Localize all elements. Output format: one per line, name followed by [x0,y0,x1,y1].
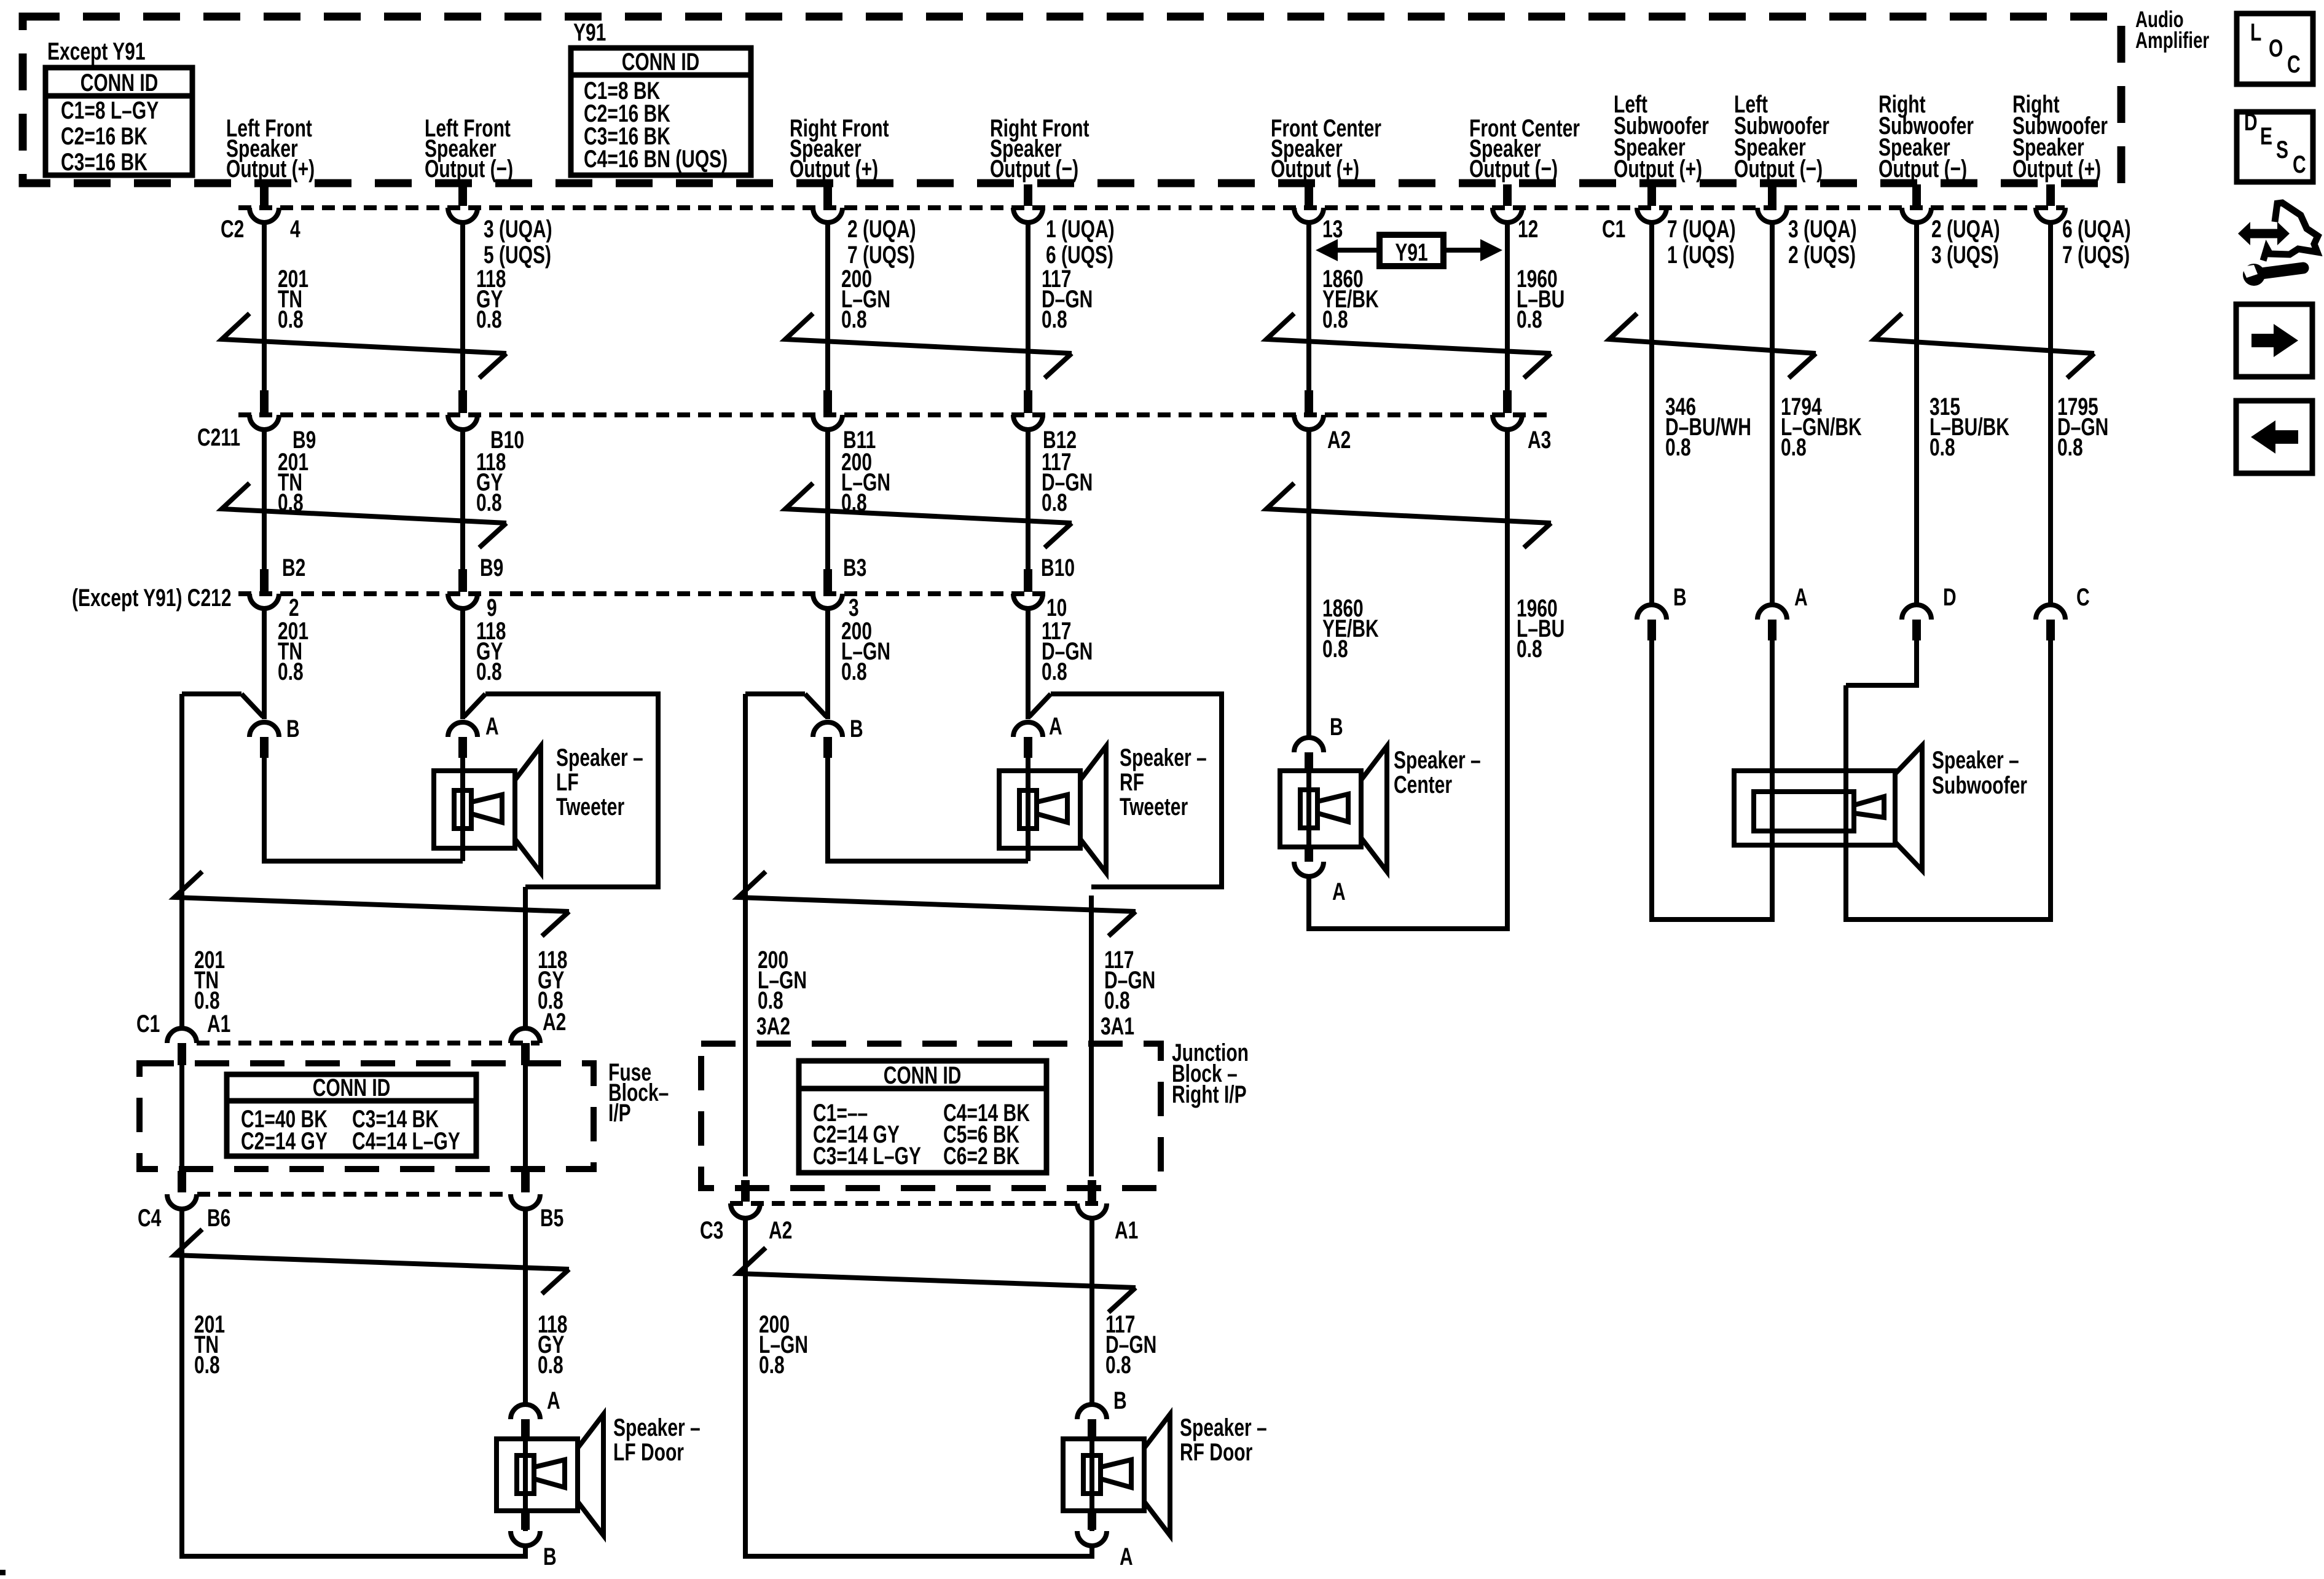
svg-text:C3=14 L–GY: C3=14 L–GY [813,1143,921,1170]
svg-text:C: C [2287,51,2301,78]
svg-text:Speaker –: Speaker – [1394,747,1481,774]
svg-text:B5: B5 [540,1205,563,1232]
svg-text:Amplifier: Amplifier [2135,27,2209,53]
svg-text:0.8: 0.8 [759,1352,785,1379]
svg-text:0.8: 0.8 [278,306,304,333]
svg-text:CONN ID: CONN ID [313,1074,391,1101]
svg-text:2 (UQA): 2 (UQA) [847,216,916,243]
svg-text:B: B [850,715,863,742]
svg-text:L: L [2250,19,2261,46]
svg-text:C4=14 L–GY: C4=14 L–GY [352,1128,460,1155]
svg-text:A2: A2 [769,1217,792,1244]
svg-text:C6=2 BK: C6=2 BK [943,1143,1020,1170]
svg-text:0.8: 0.8 [2057,434,2083,461]
svg-text:Output (+): Output (+) [790,156,878,183]
svg-text:B: B [1673,584,1687,611]
svg-text:Output (+): Output (+) [1614,156,1702,183]
svg-text:0.8: 0.8 [1042,306,1067,333]
svg-text:Output (+): Output (+) [226,156,315,183]
svg-text:B: B [1330,714,1343,741]
svg-text:4: 4 [290,216,300,243]
svg-text:B3: B3 [843,554,866,581]
svg-text:Tweeter: Tweeter [556,793,624,821]
svg-text:5 (UQS): 5 (UQS) [484,242,551,269]
svg-text:A: A [1049,713,1062,740]
svg-text:0.8: 0.8 [841,306,867,333]
svg-text:Speaker –: Speaker – [1932,747,2019,774]
svg-text:0.8: 0.8 [194,1352,220,1379]
svg-text:Output (−): Output (−) [1878,156,1967,183]
svg-text:B2: B2 [282,554,305,581]
svg-text:Output (−): Output (−) [1734,156,1823,183]
svg-text:CONN ID: CONN ID [622,49,700,76]
svg-text:LF: LF [556,769,579,796]
svg-text:Y91: Y91 [573,19,606,46]
svg-text:1 (UQA): 1 (UQA) [1046,216,1115,243]
svg-text:A: A [1120,1543,1133,1570]
svg-text:3 (UQA): 3 (UQA) [1788,216,1857,243]
svg-text:D: D [2244,109,2258,136]
svg-text:2 (UQA): 2 (UQA) [1931,216,2000,243]
svg-text:Subwoofer: Subwoofer [1932,772,2027,799]
svg-text:13: 13 [1322,216,1343,243]
svg-text:7 (UQS): 7 (UQS) [2062,242,2130,269]
svg-text:Output (+): Output (+) [1271,156,1359,183]
svg-text:B: B [286,715,300,742]
svg-text:Speaker –: Speaker – [613,1414,701,1441]
svg-text:A1: A1 [1115,1217,1138,1244]
svg-text:RF: RF [1120,769,1144,796]
svg-text:0.8: 0.8 [1042,489,1067,516]
svg-text:B9: B9 [480,554,503,581]
svg-text:7 (UQS): 7 (UQS) [847,242,915,269]
svg-text:3 (UQS): 3 (UQS) [1931,242,1999,269]
svg-text:Tweeter: Tweeter [1120,793,1188,821]
svg-text:7 (UQA): 7 (UQA) [1667,216,1736,243]
svg-text:C2=14 GY: C2=14 GY [241,1128,328,1155]
svg-text:B10: B10 [1041,554,1075,581]
svg-text:A: A [547,1387,560,1414]
svg-text:LF Door: LF Door [613,1439,684,1466]
svg-text:C3: C3 [700,1217,723,1244]
svg-text:0.8: 0.8 [194,987,220,1014]
svg-text:Center: Center [1394,771,1452,798]
svg-text:Output (−): Output (−) [1469,156,1558,183]
svg-text:0.8: 0.8 [1042,658,1067,685]
svg-text:CONN ID: CONN ID [884,1062,962,1089]
svg-text:C2: C2 [221,216,244,243]
svg-text:Output (−): Output (−) [990,156,1078,183]
svg-text:3 (UQA): 3 (UQA) [484,216,552,243]
svg-text:6 (UQS): 6 (UQS) [1046,242,1113,269]
svg-text:0.8: 0.8 [476,658,502,685]
svg-text:C1=8 L–GY: C1=8 L–GY [61,97,159,124]
svg-text:0.8: 0.8 [538,987,563,1014]
svg-text:0.8: 0.8 [278,658,304,685]
svg-text:A: A [1794,584,1808,611]
svg-text:0.8: 0.8 [1517,636,1542,663]
svg-text:6 (UQA): 6 (UQA) [2062,216,2131,243]
svg-text:A: A [1332,878,1346,905]
svg-text:A: A [485,713,499,740]
svg-text:RF Door: RF Door [1180,1439,1252,1466]
svg-text:Y91: Y91 [1395,239,1427,266]
svg-text:Output (+): Output (+) [2012,156,2101,183]
svg-text:Speaker –: Speaker – [1120,744,1207,771]
svg-text:E: E [2260,123,2272,150]
svg-text:0.8: 0.8 [1322,636,1348,663]
svg-text:0.8: 0.8 [1781,434,1807,461]
svg-text:3A1: 3A1 [1101,1013,1134,1040]
svg-text:O: O [2269,35,2283,62]
svg-text:0.8: 0.8 [1929,434,1955,461]
svg-text:B: B [543,1543,557,1570]
svg-text:C4=16 BN (UQS): C4=16 BN (UQS) [584,146,728,173]
svg-text:C: C [2076,584,2090,611]
svg-text:0.8: 0.8 [1665,434,1691,461]
svg-text:Right I/P: Right I/P [1172,1081,1247,1108]
svg-text:C2=16 BK: C2=16 BK [61,123,147,150]
svg-text:0.8: 0.8 [841,658,867,685]
svg-text:2 (UQS): 2 (UQS) [1788,242,1856,269]
svg-text:A1: A1 [207,1010,230,1038]
svg-text:0.8: 0.8 [1105,1352,1131,1379]
svg-text:1 (UQS): 1 (UQS) [1667,242,1735,269]
svg-text:A3: A3 [1528,427,1551,454]
svg-text:CONN ID: CONN ID [80,69,159,96]
svg-text:D: D [1943,584,1957,611]
svg-text:Speaker –: Speaker – [556,744,643,771]
svg-text:Speaker –: Speaker – [1180,1414,1267,1441]
svg-text:12: 12 [1518,216,1538,243]
svg-text:(Except Y91) C212: (Except Y91) C212 [72,585,232,612]
svg-text:C211: C211 [197,424,240,451]
svg-text:0.8: 0.8 [538,1352,563,1379]
svg-text:B6: B6 [207,1205,230,1232]
svg-text:Except Y91: Except Y91 [47,38,146,65]
svg-text:0.8: 0.8 [476,306,502,333]
svg-text:0.8: 0.8 [758,987,783,1014]
svg-text:A2: A2 [1327,427,1351,454]
svg-text:B: B [1113,1387,1127,1414]
svg-text:Output (−): Output (−) [425,156,513,183]
svg-text:0.8: 0.8 [1322,306,1348,333]
svg-text:C: C [2293,151,2306,178]
svg-text:C4: C4 [138,1205,162,1232]
svg-text:0.8: 0.8 [1517,306,1542,333]
svg-text:3A2: 3A2 [756,1013,790,1040]
svg-text:0.8: 0.8 [1104,987,1130,1014]
svg-text:C1: C1 [1602,216,1625,243]
svg-text:S: S [2276,136,2288,163]
svg-text:I/P: I/P [608,1100,631,1127]
svg-text:0.8: 0.8 [476,489,502,516]
svg-text:C1: C1 [136,1010,160,1038]
svg-text:C3=16 BK: C3=16 BK [61,149,147,176]
